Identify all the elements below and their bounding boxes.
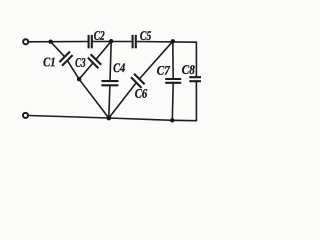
node B (109, 39, 113, 43)
svg-text:C5: C5 (140, 28, 152, 43)
node D (170, 118, 174, 122)
capacitor C4 (101, 81, 118, 85)
wire C to C7 (172, 41, 174, 79)
capacitor C1 (59, 52, 72, 66)
wire top segment 3 (136, 41, 197, 44)
wire top segment 2 (92, 41, 133, 43)
svg-text:C6: C6 (135, 86, 148, 101)
wire B to C4 (110, 41, 111, 81)
svg-text:C8: C8 (182, 62, 195, 77)
node J (77, 77, 81, 81)
wire right edge bottom (195, 81, 197, 121)
capacitor C7 (165, 79, 181, 83)
wire C3 to node J (79, 63, 93, 79)
terminal top-left (23, 39, 28, 44)
wire A to C1 (51, 42, 65, 57)
svg-text:C1: C1 (43, 54, 56, 69)
wire C to C6 (139, 41, 173, 79)
svg-text:C7: C7 (157, 63, 170, 78)
wire node J to node N (79, 79, 109, 118)
wire right edge top (195, 41, 197, 77)
wire B to C3 (96, 41, 111, 59)
svg-text:C4: C4 (113, 60, 125, 75)
capacitor C5 (133, 35, 136, 48)
svg-text:C2: C2 (94, 28, 105, 43)
terminal bottom-left (23, 113, 28, 118)
capacitor C6 (131, 74, 145, 88)
node C (171, 39, 175, 43)
svg-text:C3: C3 (75, 55, 86, 70)
wire C7 to node D (171, 83, 174, 121)
wire C1 to node J (67, 60, 79, 79)
capacitor C8 (189, 77, 201, 81)
capacitor C2 (89, 35, 92, 48)
wire C6 to node N (109, 83, 137, 118)
node N (106, 116, 111, 121)
node A (48, 40, 52, 44)
wire C4 to node N (109, 85, 110, 118)
wire top segment 1 (29, 41, 89, 43)
wire bottom (29, 116, 198, 121)
capacitor C3 (88, 54, 101, 68)
